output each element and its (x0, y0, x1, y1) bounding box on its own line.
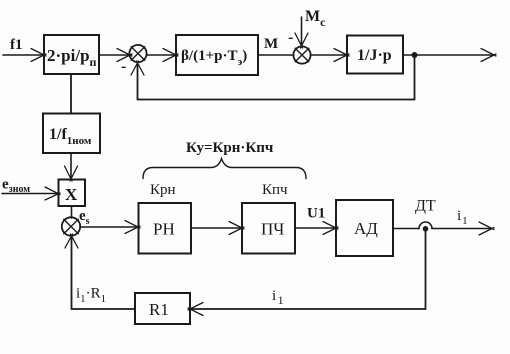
svg-text:U1: U1 (307, 206, 325, 222)
label Кпч (262, 182, 288, 198)
node i1·R1 label (76, 286, 106, 306)
svg-text:РН: РН (153, 220, 175, 239)
wire arrowhead Mc into summer2 (295, 33, 308, 48)
summer junction 3 (62, 217, 80, 235)
wire arrowhead into block 2pi/pp (31, 49, 46, 62)
svg-text:Ку=Крн·Кпч: Ку=Крн·Кпч (186, 140, 274, 156)
node i1 output label (457, 208, 468, 227)
wire arrowhead into R1 (188, 303, 203, 316)
block 1/f1ном (43, 114, 100, 154)
svg-text:1/J·p: 1/J·p (357, 47, 392, 64)
wire arrowhead i1 output (479, 222, 494, 235)
node f1 input label (10, 37, 23, 53)
wire sensor to i1 output (432, 228, 490, 230)
block R1 shunt resistor (135, 293, 190, 324)
node dot at current sensor (423, 226, 429, 232)
block beta/(1+p·Tэ) (176, 35, 258, 75)
svg-text:АД: АД (354, 219, 378, 238)
summer (comparison) junction 1 (129, 45, 146, 62)
svg-text:Крн: Крн (150, 182, 176, 198)
wire arrowhead feedback into summer1 (131, 61, 144, 75)
wire PH to PCh (191, 227, 240, 229)
wire arrowhead into summer1 (117, 49, 132, 62)
brace over PH and PCh (143, 159, 306, 179)
wire block beta to summer2 (258, 54, 294, 56)
node i1 feedback label (272, 288, 284, 307)
wire arrowhead into block 1/Jp (334, 49, 349, 62)
multiplier block X (59, 180, 86, 207)
minus sign at summer1 (121, 58, 126, 75)
wire arrowhead i1R1 into summer3 (65, 234, 78, 248)
wire summer2 to block 1/Jp (311, 54, 346, 56)
block ПЧ frequency converter (242, 203, 295, 254)
svg-text:ПЧ: ПЧ (261, 220, 284, 239)
wire 1/f1nom down to multiplier X (70, 153, 72, 177)
block 1/J·p (347, 36, 403, 74)
minus sign at summer2 (288, 29, 293, 46)
svg-text:f1: f1 (10, 37, 23, 53)
wire arrowhead eзном into X (45, 187, 60, 200)
svg-text:R1: R1 (149, 300, 169, 319)
wire R1 to left and up to summer3 (72, 237, 136, 309)
wire arrowhead into PCh (229, 222, 244, 235)
svg-text:X: X (65, 185, 78, 204)
wire arrowhead into multiplier X (65, 166, 78, 181)
node U1 label (307, 206, 325, 222)
wire arrowhead into PH (125, 221, 140, 234)
block АД induction motor (336, 200, 393, 256)
wire current feedback down and left into R1 (192, 229, 426, 309)
wire f1 input (3, 54, 42, 56)
label ДТ (415, 198, 436, 215)
wire arrowhead output (481, 49, 496, 62)
svg-text:ДТ: ДТ (415, 198, 436, 215)
wire summer3 to block PH (80, 226, 136, 228)
svg-text:-: - (121, 58, 126, 75)
wire Mc input down into summer2 (301, 17, 303, 44)
node junction dot after 1/Jp (412, 52, 418, 58)
wire arrowhead into AD (323, 222, 338, 235)
wire block1 to summer1 (99, 54, 128, 56)
label Крн (150, 182, 176, 198)
block РН voltage regulator (139, 203, 192, 254)
wire speed feedback down/left/up to summer1 (138, 55, 415, 100)
node eзном input label (2, 177, 30, 196)
svg-text:Кпч: Кпч (262, 182, 288, 198)
wire arrowhead into block beta (163, 49, 178, 62)
wire X down to summer3 (71, 206, 73, 218)
svg-text:M: M (264, 36, 278, 52)
wire AD to current sensor (393, 228, 419, 230)
label Ку=Крн·Кпч (186, 140, 274, 156)
wire block1 down to block 1/f1nom (70, 74, 72, 114)
wire PCh to AD (295, 227, 334, 229)
wire summer1 to block beta (147, 54, 174, 56)
node es error label (79, 208, 90, 227)
wire speed output (403, 54, 492, 56)
node Mc load torque label (305, 8, 326, 29)
summer junction 2 (293, 46, 310, 63)
current sensor ДТ hump (419, 222, 432, 229)
node M label (264, 36, 278, 52)
svg-text:-: - (288, 29, 293, 46)
block 2·pi/pп (44, 35, 99, 74)
wire eзном input (2, 193, 56, 195)
